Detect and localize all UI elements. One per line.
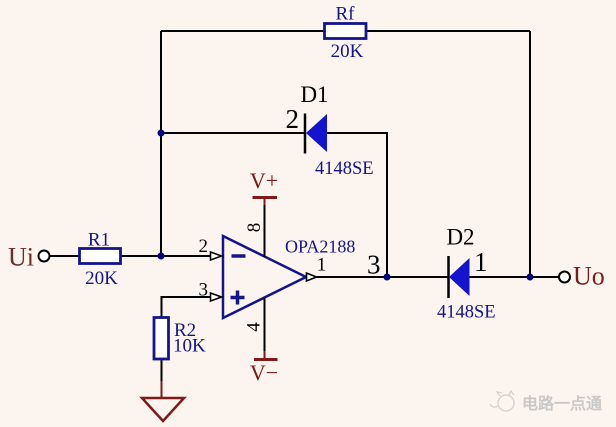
- power V+ port: [250, 168, 278, 257]
- svg-text:3: 3: [199, 280, 209, 301]
- svg-text:R1: R1: [88, 230, 110, 251]
- svg-text:D1: D1: [300, 82, 328, 107]
- diode D2: [437, 225, 496, 323]
- svg-text:Ui: Ui: [8, 243, 34, 272]
- wire D2 to output terminal: [470, 276, 560, 278]
- pin 3 input arrow: [211, 293, 222, 301]
- svg-text:V−: V−: [250, 360, 278, 385]
- pin 1 output arrow: [307, 273, 317, 281]
- svg-text:Rf: Rf: [336, 4, 356, 25]
- svg-text:10K: 10K: [173, 336, 206, 357]
- svg-text:20K: 20K: [85, 268, 118, 289]
- svg-text:4148SE: 4148SE: [315, 159, 374, 179]
- resistor Rf: [325, 24, 367, 39]
- power V- port: [250, 298, 278, 386]
- junction at D1 branch/output: [384, 274, 391, 281]
- svg-text:4: 4: [244, 322, 265, 332]
- wire top feedback from left vertical to right vertical: [161, 30, 530, 32]
- resistor R2: [154, 318, 169, 360]
- svg-text:1: 1: [317, 255, 327, 276]
- svg-text:1: 1: [474, 247, 488, 277]
- svg-text:OPA2188: OPA2188: [285, 237, 355, 257]
- plus sign: [231, 291, 245, 305]
- svg-text:V+: V+: [250, 168, 278, 193]
- svg-text:4148SE: 4148SE: [437, 303, 496, 323]
- watermark icon: [490, 391, 514, 411]
- terminal Uo: [559, 272, 570, 283]
- wire right vertical from feedback to output node: [529, 31, 531, 277]
- svg-text:电路一点通: 电路一点通: [522, 394, 602, 413]
- svg-text:20K: 20K: [331, 41, 364, 62]
- wire R2 to ground: [161, 359, 163, 381]
- svg-text:2: 2: [199, 236, 209, 257]
- resistor R1: [80, 249, 121, 264]
- pin 2 input arrow: [211, 252, 222, 260]
- terminal Ui: [39, 251, 50, 262]
- wire Ui terminal to R1: [50, 255, 80, 257]
- wire left feedback vertical: [160, 31, 162, 256]
- svg-text:8: 8: [244, 223, 265, 233]
- svg-text:D2: D2: [446, 225, 474, 250]
- wire R1 to inverting input: [121, 255, 211, 257]
- svg-text:2: 2: [286, 104, 300, 134]
- svg-text:3: 3: [367, 250, 381, 280]
- op-amp U1 OPA2188: [199, 223, 356, 332]
- diode D1: [286, 82, 374, 179]
- ground: [142, 381, 184, 421]
- wire D1 right segment with corner down: [327, 133, 387, 277]
- wire noninverting input to R2 corner: [162, 297, 211, 318]
- junction at feedback/D1 branch: [158, 130, 165, 137]
- junction at feedback/output: [527, 274, 534, 281]
- minus sign: [232, 254, 246, 258]
- junction at R1/inverting input: [158, 253, 165, 260]
- wire opamp output to D2: [317, 276, 449, 278]
- wire D1 left segment: [161, 132, 305, 134]
- svg-text:Uo: Uo: [573, 262, 605, 291]
